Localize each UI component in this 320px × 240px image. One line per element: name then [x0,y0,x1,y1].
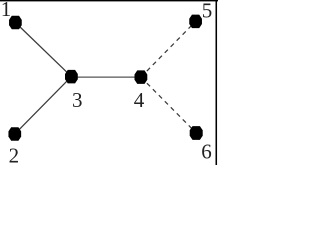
node 3 [65,70,78,84]
edge 2-3 (solid wire) [15,77,72,134]
edge 1-3 (solid wire) [15,23,71,77]
svg-text:1: 1 [1,0,12,21]
node 2 [8,127,21,140]
edge 4-6 (dashed wire) [141,77,196,133]
node 6 [190,126,203,140]
svg-text:2: 2 [9,144,20,165]
svg-text:3: 3 [72,88,83,112]
node 5 [189,15,202,28]
svg-text:4: 4 [134,88,145,112]
border top [0,0,218,1]
edge 4-5 (dashed wire) [141,21,196,77]
node 4 [135,70,148,84]
edge 3-4 (solid wire) [71,76,140,78]
node 1 [9,16,22,29]
svg-text:5: 5 [202,0,213,23]
svg-text:6: 6 [201,139,212,163]
border right [216,0,218,165]
